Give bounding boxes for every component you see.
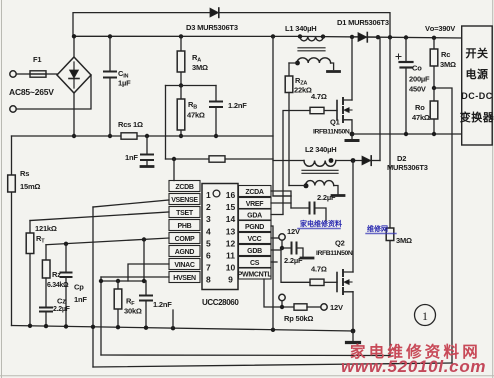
svg-text:GDB: GDB bbox=[247, 248, 262, 255]
wire COMP Rz corner bbox=[45, 245, 47, 260]
node bridge bottom on Rcs rail bbox=[72, 134, 76, 138]
node 1.2nF bottom bbox=[214, 134, 218, 138]
wire bridge bottom to Rcs bus bbox=[73, 93, 75, 136]
svg-text:6: 6 bbox=[206, 251, 211, 261]
svg-text:CS: CS bbox=[250, 260, 260, 267]
resistor Rp 50k bbox=[294, 304, 307, 310]
svg-text:3MΩ: 3MΩ bbox=[192, 63, 208, 72]
wire VINAC left bbox=[128, 264, 169, 281]
svg-text:IRFB11N50N: IRFB11N50N bbox=[313, 129, 350, 136]
wire COMP to 1.2nF vertical bbox=[143, 240, 145, 282]
svg-text:1.2nF: 1.2nF bbox=[228, 101, 247, 110]
svg-text:2.2µF: 2.2µF bbox=[317, 193, 336, 202]
svg-text:14: 14 bbox=[226, 214, 236, 224]
node COMP-1.2nF tap bbox=[142, 237, 146, 241]
pin label ZCDB bbox=[169, 181, 200, 192]
wire L2 row bbox=[273, 160, 362, 162]
svg-text:PWMCNTL: PWMCNTL bbox=[238, 271, 273, 278]
node RZB-ZCDB tap bbox=[172, 157, 176, 161]
pin label VSENSE bbox=[169, 194, 200, 205]
wire fuse to bridge bbox=[46, 73, 57, 75]
wire VREF right bbox=[271, 202, 291, 204]
node Q1 source bbox=[350, 132, 355, 137]
node Rf top bbox=[116, 279, 120, 283]
svg-text:Rz: Rz bbox=[52, 270, 61, 279]
wire Vo-3M vertical bbox=[389, 37, 391, 355]
svg-text:13: 13 bbox=[226, 226, 236, 236]
svg-text:9: 9 bbox=[228, 275, 233, 285]
wire stub x173 bbox=[172, 310, 174, 328]
svg-text:Rcs 1Ω: Rcs 1Ω bbox=[118, 120, 143, 129]
wire Q2 source gnd stub bbox=[352, 331, 354, 342]
diode D2 bbox=[362, 156, 380, 165]
transistor Q1 IRFB11N50N bbox=[337, 98, 352, 134]
wire ZCDB drop bbox=[173, 159, 175, 181]
node Rc-Ro junction bbox=[432, 86, 436, 90]
wire RZA bottom to L2 aux bbox=[288, 93, 290, 186]
svg-text:15mΩ: 15mΩ bbox=[20, 182, 40, 191]
svg-text:1nF: 1nF bbox=[125, 153, 138, 162]
wire gate to GDB corner bbox=[281, 250, 310, 282]
svg-text:开关: 开关 bbox=[466, 46, 489, 60]
node gnd Cp bbox=[64, 324, 68, 328]
wire Q1 source stub to ground bbox=[351, 134, 353, 139]
node bridge top bbox=[72, 34, 76, 38]
pin label PWMCNTL bbox=[238, 268, 273, 279]
L1 aux winding bbox=[289, 58, 334, 70]
ground VCC cap bbox=[301, 257, 313, 260]
wire AC upper to fuse bbox=[16, 73, 30, 75]
svg-text:D1 MUR5306T3: D1 MUR5306T3 bbox=[337, 18, 389, 27]
wire D2 cathode to bus bbox=[379, 37, 381, 160]
svg-text:Cp: Cp bbox=[74, 283, 84, 292]
node L1 left bbox=[298, 34, 302, 38]
wire HVSEN wrap bottom to 3M bbox=[101, 354, 390, 357]
node D3 join bbox=[388, 35, 392, 39]
wire Q1 drain bbox=[351, 37, 353, 100]
pin label VREF bbox=[239, 198, 272, 209]
svg-text:电源: 电源 bbox=[466, 67, 489, 81]
svg-text:家电维修资料: 家电维修资料 bbox=[300, 219, 342, 228]
fuse F1 bbox=[30, 71, 46, 77]
resistor RA 3M bbox=[177, 36, 185, 85]
svg-text:8: 8 bbox=[206, 275, 211, 285]
svg-text:ZCDB: ZCDB bbox=[175, 184, 193, 191]
watermark blue underline 2 bbox=[366, 233, 396, 235]
AC input terminal lower bbox=[10, 106, 16, 112]
capacitor 1nF CS filter bbox=[141, 136, 153, 166]
node RA top bbox=[179, 34, 183, 38]
wire PGND down bbox=[271, 226, 273, 330]
capacitor Cz 2.2uF bbox=[40, 278, 52, 326]
capacitor Cp 1nF bbox=[61, 244, 72, 326]
wire VCC 12V stub bbox=[281, 240, 283, 248]
ground Q1 source bbox=[346, 139, 358, 142]
node RA-RB junction bbox=[179, 83, 183, 87]
svg-text:Q1: Q1 bbox=[330, 118, 340, 127]
wire GDA right bbox=[271, 214, 283, 216]
wire VCC right bbox=[271, 237, 282, 239]
node L1 right bbox=[321, 34, 325, 38]
wire VSENSE wrap bottom bbox=[93, 363, 452, 367]
svg-text:47kΩ: 47kΩ bbox=[187, 111, 205, 120]
svg-text:PGND: PGND bbox=[245, 224, 264, 231]
node Rf rail left bbox=[99, 279, 103, 283]
wire PWM terminal stub bbox=[281, 301, 283, 307]
pin label PGND bbox=[239, 221, 272, 232]
wire ZCDA right bbox=[271, 191, 291, 208]
svg-text:Co: Co bbox=[412, 64, 422, 73]
IC pin1 index circle bbox=[213, 190, 220, 197]
wire Q1 gate feed bbox=[324, 110, 337, 112]
svg-text:6.34kΩ: 6.34kΩ bbox=[47, 282, 69, 289]
node gnd Q2 source bbox=[351, 329, 356, 334]
node CS filter bbox=[145, 134, 149, 138]
wire Q2 gate feed bbox=[324, 281, 337, 283]
svg-text:Vо=390V: Vо=390V bbox=[425, 24, 455, 33]
pin label AGND bbox=[169, 246, 200, 257]
node gnd stub bbox=[171, 326, 175, 330]
svg-text:16: 16 bbox=[226, 190, 236, 200]
wire bridge top to bus bbox=[73, 36, 75, 57]
pin label PHB bbox=[169, 220, 200, 231]
capacitor 2.2uF VCC bbox=[282, 243, 303, 257]
svg-text:4.7Ω: 4.7Ω bbox=[311, 92, 327, 101]
wire VSENSE left bbox=[93, 200, 169, 207]
resistor Rf 30k bbox=[114, 281, 122, 327]
diode D3 bbox=[210, 8, 219, 17]
svg-text:VREF: VREF bbox=[246, 201, 264, 208]
wire power return rail bbox=[352, 133, 462, 135]
svg-text:GDA: GDA bbox=[247, 212, 262, 219]
node gnd 1.2nF bbox=[144, 326, 148, 330]
circled number 1 bbox=[415, 305, 436, 326]
node RB bottom bbox=[179, 134, 183, 138]
svg-text:15: 15 bbox=[226, 202, 236, 212]
wire TSET to RT bbox=[30, 212, 169, 221]
terminal 12V Rp bbox=[321, 304, 327, 310]
svg-text:IRFB11N50N: IRFB11N50N bbox=[316, 250, 353, 257]
node gnd Cz bbox=[44, 324, 48, 328]
pin label CS bbox=[239, 257, 272, 268]
wire Rf rail bbox=[101, 280, 146, 282]
svg-text:AGND: AGND bbox=[175, 249, 195, 256]
svg-text:30kΩ: 30kΩ bbox=[124, 307, 142, 316]
node D1 cathode bbox=[376, 35, 380, 39]
resistor RZB 22k bbox=[209, 156, 225, 162]
wire gate to GDA vertical bbox=[283, 111, 310, 215]
svg-text:7: 7 bbox=[206, 263, 211, 273]
svg-text:450V: 450V bbox=[409, 85, 426, 94]
ground L2 aux bbox=[332, 194, 344, 197]
node Co top bbox=[404, 35, 408, 39]
AC input terminal upper bbox=[10, 71, 16, 77]
transistor Q2 IRFB11N50N bbox=[337, 161, 353, 332]
ground bus bbox=[12, 326, 354, 332]
resistor Rc 3M bbox=[430, 38, 438, 88]
node gnd x93 bbox=[91, 325, 95, 329]
resistor Ro 47k bbox=[430, 88, 438, 134]
svg-text:www.52010l.com: www.52010l.com bbox=[341, 357, 486, 376]
resistor 4.7ohm Q2 gate bbox=[310, 279, 324, 285]
wire GDB right bbox=[271, 249, 281, 251]
svg-text:11: 11 bbox=[226, 251, 235, 261]
node gnd Rf bbox=[116, 325, 120, 329]
wire x273 corner to x291 bbox=[273, 195, 291, 197]
svg-text:4: 4 bbox=[206, 226, 211, 236]
capacitor Co 200uF bbox=[396, 38, 413, 135]
svg-text:1µF: 1µF bbox=[118, 79, 131, 88]
diode D1 bbox=[352, 33, 378, 42]
pin label GDA bbox=[239, 209, 272, 220]
pin label VCC bbox=[239, 233, 272, 244]
wire Rcs rail bbox=[12, 135, 274, 137]
svg-text:Rc: Rc bbox=[441, 50, 450, 59]
svg-text:Rp 50kΩ: Rp 50kΩ bbox=[284, 314, 313, 323]
svg-text:ZCDA: ZCDA bbox=[245, 189, 263, 196]
wire AC lower to bridge right corner bbox=[16, 75, 91, 109]
pin label TSET bbox=[169, 207, 200, 218]
node Cin top bbox=[108, 34, 112, 38]
svg-text:200µF: 200µF bbox=[409, 75, 430, 84]
svg-text:MUR5306T3: MUR5306T3 bbox=[387, 163, 428, 172]
wire HVSEN left bbox=[101, 276, 169, 278]
wire left column bbox=[11, 136, 13, 326]
svg-text:4.7Ω: 4.7Ω bbox=[311, 265, 327, 274]
L2 aux winding bbox=[289, 181, 338, 194]
svg-text:1: 1 bbox=[206, 190, 211, 200]
wire VSENSE takeoff bbox=[434, 88, 452, 363]
resistor Rs 15mohm bbox=[8, 175, 16, 192]
svg-text:HVSEN: HVSEN bbox=[173, 275, 196, 282]
svg-text:3MΩ: 3MΩ bbox=[440, 60, 456, 69]
ground main bbox=[347, 341, 360, 344]
node Cin bottom bbox=[108, 134, 112, 138]
wire top D3 line bbox=[73, 13, 390, 37]
node D1 anode / Q1 drain bbox=[350, 35, 354, 39]
node 1.2nF top bbox=[142, 279, 146, 283]
svg-text:AC85~265V: AC85~265V bbox=[9, 87, 54, 97]
svg-text:RB: RB bbox=[188, 100, 197, 111]
svg-text:D2: D2 bbox=[397, 154, 406, 163]
pin label COMP bbox=[169, 233, 200, 244]
terminal 12V VCC bbox=[279, 234, 285, 240]
ground 1nF bbox=[141, 165, 153, 168]
wire RZA top bbox=[288, 63, 290, 76]
node Co bottom bbox=[404, 132, 408, 136]
svg-text:Rs: Rs bbox=[20, 169, 29, 178]
svg-text:TSET: TSET bbox=[176, 210, 194, 217]
resistor Rz 6.34k bbox=[42, 260, 50, 278]
svg-text:变换器: 变换器 bbox=[460, 110, 494, 124]
wire divider junction rail bbox=[166, 85, 217, 87]
svg-text:RA: RA bbox=[192, 53, 201, 64]
svg-text:RF: RF bbox=[126, 297, 135, 308]
ground L1 aux bbox=[328, 70, 340, 73]
svg-text:3MΩ: 3MΩ bbox=[396, 236, 412, 245]
svg-text:1nF: 1nF bbox=[74, 295, 87, 304]
node gnd PGND bbox=[271, 328, 275, 332]
svg-text:VCC: VCC bbox=[248, 236, 262, 243]
resistor RZA 22k bbox=[285, 76, 293, 93]
svg-text:F1: F1 bbox=[33, 55, 41, 64]
svg-text:2: 2 bbox=[206, 202, 211, 212]
wire HVSEN wrap vertical bbox=[100, 277, 102, 355]
pin label VINAC bbox=[169, 259, 200, 270]
svg-text:COMP: COMP bbox=[175, 236, 195, 243]
inductor L2 340uH bbox=[302, 158, 338, 173]
svg-text:47kΩ: 47kΩ bbox=[412, 113, 430, 122]
svg-text:维修网: 维修网 bbox=[367, 224, 388, 233]
svg-text:3: 3 bbox=[206, 214, 211, 224]
resistor 3M HVSEN bbox=[386, 228, 394, 241]
wire COMP left bbox=[46, 238, 169, 245]
svg-text:10: 10 bbox=[226, 263, 236, 273]
node VCC cap bbox=[280, 246, 284, 250]
pin label GDB bbox=[239, 245, 272, 256]
node L2 feed bbox=[271, 34, 275, 38]
capacitor 2.2uF ZCD bbox=[291, 203, 326, 221]
svg-text:VINAC: VINAC bbox=[174, 262, 195, 269]
main rectified bus bbox=[73, 36, 462, 38]
svg-text:12: 12 bbox=[226, 238, 236, 248]
wire RZB rail bbox=[166, 158, 274, 160]
svg-text:VSENSE: VSENSE bbox=[171, 197, 198, 204]
svg-text:12V: 12V bbox=[330, 303, 343, 312]
svg-text:Rо: Rо bbox=[415, 103, 425, 112]
pin label HVSEN bbox=[169, 272, 200, 283]
svg-text:PHB: PHB bbox=[178, 223, 192, 230]
resistor 4.7ohm Q1 gate bbox=[310, 107, 324, 113]
svg-text:L1 340µH: L1 340µH bbox=[285, 24, 317, 33]
resistor RB 47k bbox=[177, 86, 185, 137]
svg-text:2.2µF: 2.2µF bbox=[53, 306, 71, 313]
svg-text:L2 340µH: L2 340µH bbox=[305, 145, 337, 154]
inductor L1 340uH bbox=[298, 36, 325, 50]
bridge rectifier bbox=[57, 57, 91, 93]
capacitor 1.2nF (RB parallel) bbox=[210, 86, 222, 137]
wire L2 feed vertical bbox=[273, 36, 291, 196]
capacitor Cin bbox=[104, 36, 116, 136]
node gnd RT bbox=[28, 324, 32, 328]
node Rc top bbox=[432, 36, 436, 40]
watermark blue underline 1 bbox=[298, 228, 340, 230]
wire PWMCNTL down bbox=[264, 279, 294, 307]
svg-text:Q2: Q2 bbox=[335, 239, 345, 248]
svg-text:1: 1 bbox=[422, 309, 428, 323]
wire Rp to 12V bbox=[307, 306, 321, 308]
svg-text:5: 5 bbox=[206, 238, 211, 248]
svg-text:2.2µF: 2.2µF bbox=[284, 256, 303, 265]
node COMP-Cp tap bbox=[64, 242, 68, 246]
svg-text:UCC28060: UCC28060 bbox=[202, 298, 239, 307]
capacitor 1.2nF VINAC bbox=[140, 281, 152, 328]
DC-DC converter box bbox=[462, 26, 493, 145]
node L2-D2-Q2 junction bbox=[351, 158, 356, 163]
svg-text:DC-DC: DC-DC bbox=[461, 91, 493, 101]
node Rp left bbox=[280, 305, 284, 309]
svg-text:RT: RT bbox=[36, 234, 45, 245]
node Ro bottom bbox=[432, 132, 436, 136]
pin label ZCDA bbox=[239, 186, 272, 197]
wire CS stub bbox=[271, 261, 277, 263]
resistor Rcs 1ohm bbox=[121, 133, 137, 139]
wire VSENSE wrap vertical bbox=[92, 207, 94, 367]
resistor RT 121k bbox=[26, 221, 34, 326]
svg-text:22kΩ: 22kΩ bbox=[294, 86, 312, 95]
svg-text:121kΩ: 121kΩ bbox=[35, 224, 57, 233]
IC U1 UCC28060 body bbox=[202, 184, 238, 290]
svg-text:1.2nF: 1.2nF bbox=[153, 300, 172, 309]
terminal PWM control bbox=[279, 294, 285, 300]
wire VINAC-divider drop bbox=[165, 86, 167, 160]
svg-text:Cz: Cz bbox=[57, 297, 66, 306]
svg-text:D3 MUR5306T3: D3 MUR5306T3 bbox=[186, 23, 238, 32]
